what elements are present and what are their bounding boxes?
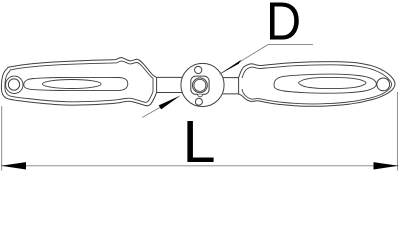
top clamp screw [195,66,202,73]
dimension L extension line left [1,106,3,171]
die recess rounded square [191,76,209,94]
left shank bar [157,77,182,92]
right handle grip oval [299,77,367,88]
lock notch [198,94,203,96]
left handle hole ring [6,76,23,93]
dimension D leader line lower [142,107,160,117]
left handle grip recess loop [24,77,128,90]
dimension L arrowhead right [374,162,399,169]
svg-text:D: D [266,0,301,51]
left handle grip oval [43,80,102,89]
right handle hanging hole [377,78,390,91]
right handle inner contour [242,65,392,104]
dimension L line [1,165,399,167]
right shank bar [223,78,239,94]
bottom clamp screw [195,98,202,105]
die inner circle [194,79,206,91]
dimension L extension line right [396,92,398,171]
left handle outline [1,58,156,106]
dimension D arrowhead lower [159,95,181,109]
dimension D arrowhead upper [220,60,242,74]
right handle grip recess loop [274,74,376,93]
die outer circle [193,78,208,93]
left handle hanging hole [8,79,19,90]
svg-text:L: L [182,108,215,172]
right handle outline [239,62,395,107]
left handle inner contour [5,61,153,102]
dimension D leader line [220,45,314,75]
die holder body circle [181,63,224,106]
dimension L arrowhead left [1,162,26,169]
